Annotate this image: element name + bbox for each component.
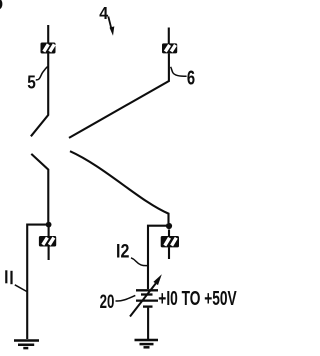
svg-text:4: 4 [99, 3, 108, 23]
svg-text:5: 5 [27, 72, 36, 93]
svg-text:6: 6 [187, 66, 195, 89]
svg-text:I2: I2 [116, 240, 129, 262]
svg-text:20: 20 [100, 290, 115, 312]
svg-text:+I0 TO +50V: +I0 TO +50V [158, 286, 237, 309]
